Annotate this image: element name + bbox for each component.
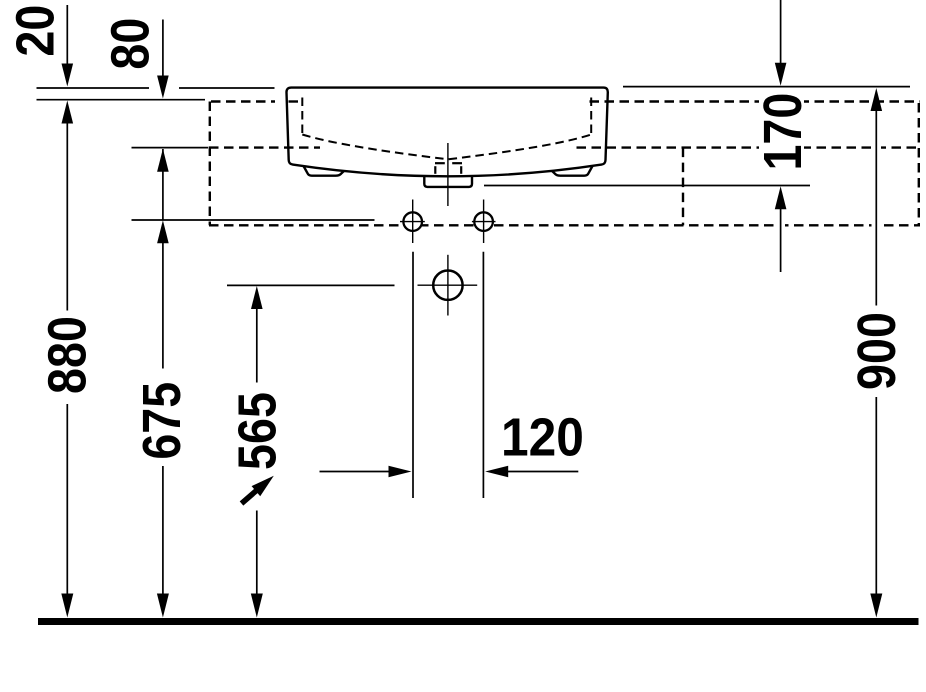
svg-text:80: 80 <box>99 18 160 70</box>
svg-text:20: 20 <box>4 5 65 57</box>
svg-text:675: 675 <box>131 382 192 460</box>
svg-text:170: 170 <box>752 93 813 171</box>
svg-text:900: 900 <box>846 312 907 390</box>
svg-text:120: 120 <box>501 406 584 466</box>
svg-text:880: 880 <box>36 316 97 394</box>
svg-text:565: 565 <box>226 392 287 470</box>
